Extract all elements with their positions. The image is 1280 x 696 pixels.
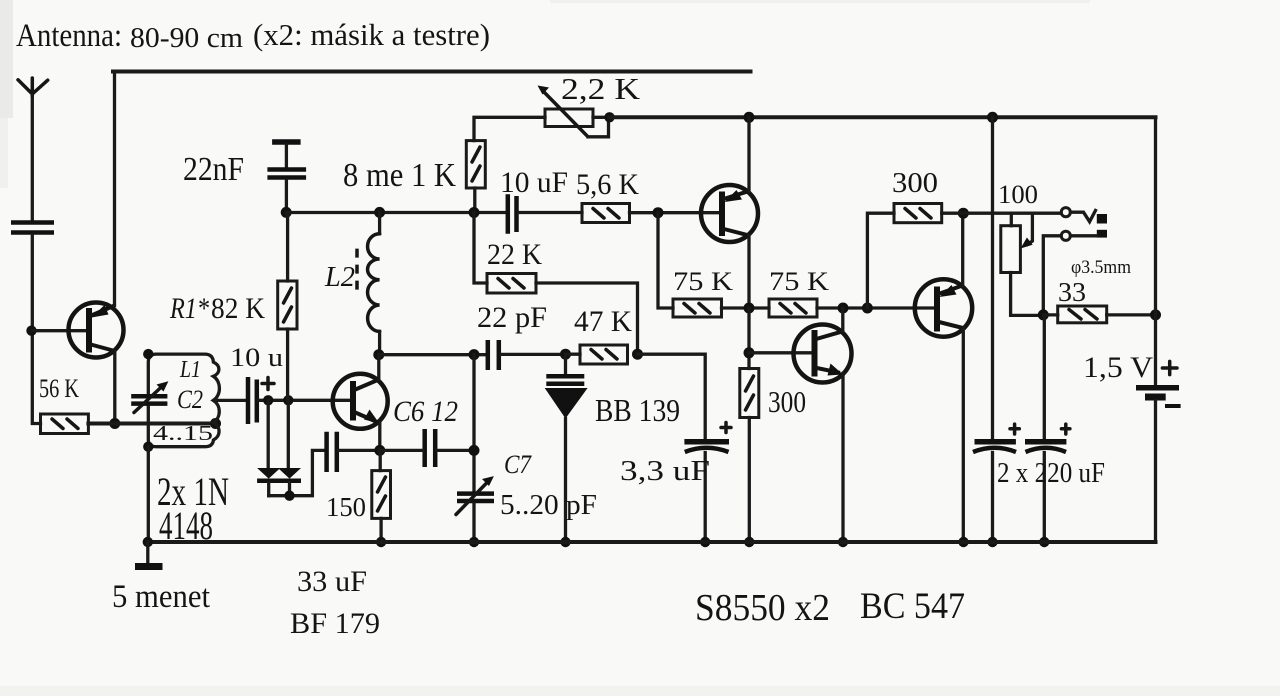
svg-text:33 uF: 33 uF [297, 565, 367, 598]
transistor Q3 BC547 [915, 279, 972, 336]
label 8 me 1 K [343, 157, 456, 194]
label C7 [504, 450, 532, 479]
node pot wiper junction [604, 112, 614, 122]
label 5 menet [112, 579, 210, 615]
transistor Q0 [69, 303, 124, 358]
svg-text:Antenna:: Antenna: [16, 18, 122, 54]
svg-text:(x2: másik a testre): (x2: másik a testre) [253, 17, 490, 52]
svg-text:10 u: 10 u [230, 343, 283, 372]
svg-text:5..20 pF: 5..20 pF [500, 490, 597, 521]
node tank tap [210, 418, 221, 429]
svg-text:47 K: 47 K [574, 305, 632, 338]
node Q4 collector [373, 349, 384, 360]
capacitor C2 variable (in tank) [131, 381, 168, 412]
node R1/diode2/base [283, 395, 293, 405]
svg-text:5,6 K: 5,6 K [576, 168, 639, 201]
node 47K right [632, 349, 643, 360]
node Q1 collector/75K [744, 303, 755, 314]
wire Q4 collector row y354 [379, 353, 486, 356]
capacitor 3,3 uF [684, 423, 731, 543]
svg-text:S8550 x2: S8550 x2 [695, 587, 830, 629]
wire antenna to 56K [32, 235, 40, 424]
svg-text:C6 12: C6 12 [393, 395, 458, 428]
wire Q2 base [749, 351, 812, 354]
wire pot 100 top stub [1010, 213, 1013, 226]
node Q3 emitter ground [958, 537, 968, 547]
label 150 [326, 492, 366, 522]
node rail/Q1 emitter [744, 112, 755, 123]
wire x474 column [472, 355, 475, 491]
svg-text:C7: C7 [504, 450, 532, 479]
wire tank tap (thick) [88, 422, 214, 426]
wire 75K#1 to 75K#2 [722, 306, 770, 309]
label C2 [177, 385, 203, 414]
node 300 branch [862, 303, 873, 314]
node 22nF/R1 junction [281, 207, 292, 218]
jack terminal sleeve [1061, 231, 1097, 240]
label 22 K [487, 238, 542, 271]
battery 1,5 V [1136, 388, 1181, 406]
jack spring contact [1070, 211, 1095, 222]
node 33 right rail [1150, 309, 1161, 320]
svg-text:C2: C2 [177, 385, 203, 414]
capacitor 22 pF [488, 340, 499, 370]
svg-text:22 pF: 22 pF [477, 301, 547, 334]
jack terminal tip [1061, 208, 1070, 217]
svg-text:75 K: 75 K [769, 267, 829, 296]
wire C6 to node x474 [437, 449, 474, 452]
wire 5,6K to Q1 base [630, 211, 721, 214]
node ground rail left [143, 537, 153, 547]
node 10u/diode1 [263, 395, 273, 405]
svg-text:33: 33 [1058, 277, 1086, 307]
resistor 5,6 K [582, 204, 630, 223]
wire ground rail [148, 540, 1156, 544]
wire node row y=212 left [286, 211, 506, 214]
varicap BB 139 [545, 354, 588, 542]
label R1* 82 K [169, 292, 265, 325]
node Q3 collector/300h [958, 208, 969, 219]
resistor 300 vertical [740, 369, 759, 543]
capacitor C7 variable [456, 476, 494, 542]
diode D2 1N4148 [278, 400, 301, 495]
wire Q4 emitter to C6 [380, 449, 423, 452]
svg-text:300: 300 [768, 384, 806, 419]
wire antenna lead down [31, 94, 34, 220]
wire Q4 emitter down [378, 423, 381, 450]
svg-text:φ3.5mm: φ3.5mm [1071, 257, 1131, 278]
potentiometer 100 [1001, 226, 1044, 316]
svg-text:L1: L1 [179, 357, 201, 383]
label 75 K second [769, 267, 829, 296]
label BF 179 [290, 607, 380, 640]
node 150 ground [376, 537, 386, 547]
inductor L1 tank outline [148, 354, 219, 447]
label 2x 1N 4148 [157, 469, 229, 548]
wire 75K#2 to Q3 base [817, 306, 935, 309]
node 22pF left [469, 349, 480, 360]
svg-text:75 K: 75 K [673, 267, 733, 296]
label 1,5 V [1083, 351, 1153, 384]
wire 220uF-1 top [991, 117, 994, 439]
wire Q2 collector up [841, 308, 844, 331]
wire 22K to 47K junction [536, 283, 638, 354]
wire tank tap to 10u cap [214, 399, 246, 402]
svg-text:10 uF: 10 uF [500, 166, 568, 199]
label 56 K [39, 374, 79, 403]
wire 10uF to 5,6K [519, 211, 583, 214]
label 75 K first [673, 267, 733, 296]
wire 300v top / Q2 base node [747, 308, 750, 369]
wire jack sleeve down [1043, 236, 1061, 315]
node Q2 emitter ground [838, 537, 848, 547]
wire x474 branch down [474, 213, 487, 284]
svg-text:BC 547: BC 547 [860, 586, 965, 627]
label 100 [998, 180, 1038, 209]
label 33 uF [297, 565, 367, 598]
wire 220uF-2 top [1043, 315, 1046, 439]
label BC 547 [860, 586, 965, 627]
wire pot left to 8me1K [474, 117, 545, 140]
capacitor 22nF [267, 142, 306, 212]
capacitor antenna series cap [11, 223, 54, 233]
svg-text:5 menet: 5 menet [112, 579, 210, 615]
label 2 x 220 uF [997, 458, 1105, 489]
svg-text:2 x 220 uF: 2 x 220 uF [997, 458, 1105, 489]
jack plug 3.5mm [1097, 214, 1107, 238]
label BB 139 [595, 392, 680, 428]
capacitor 33 uF [327, 432, 337, 472]
label 47 K [574, 305, 632, 338]
capacitor 220 uF first [973, 424, 1019, 542]
node 220uF-1 ground [987, 537, 997, 547]
wire 10u to base node [259, 399, 353, 402]
potentiometer 2,2 K [538, 86, 609, 137]
wire Q4 collector up [377, 355, 380, 380]
wire Q3 collector up [961, 213, 964, 285]
antenna ANT1 [18, 78, 48, 96]
wire right rail lower [1154, 401, 1157, 543]
label 10 u [230, 343, 283, 372]
svg-text:R1*: R1* [169, 292, 209, 325]
resistor 150 [372, 450, 391, 542]
label C6 12 [393, 395, 458, 428]
svg-text:82 K: 82 K [211, 292, 265, 325]
node BB139 ground [560, 537, 570, 547]
node BB139/47K [560, 349, 571, 360]
wire 22pF to BB139 node [501, 353, 566, 356]
resistor 75 K second [769, 299, 817, 317]
node 3,3uF ground [700, 537, 710, 547]
svg-text:22 K: 22 K [487, 238, 542, 271]
transistor Q2 S8550 [794, 325, 852, 383]
svg-text:BF 179: BF 179 [290, 607, 380, 640]
wire Q0 emitter to top rail [113, 72, 116, 306]
svg-text:22nF: 22nF [183, 151, 244, 188]
node pot/jack/33 junction [1038, 309, 1049, 320]
label S8550 x2 [695, 587, 830, 629]
node diode D2 bottom [284, 491, 294, 501]
label 3,3 uF [620, 455, 710, 487]
svg-text:1,5 V: 1,5 V [1083, 351, 1153, 384]
label 33 [1058, 277, 1086, 307]
label 2,2 K [561, 71, 641, 106]
wire 47K to 3,3uF [638, 354, 706, 439]
ground symbol [135, 542, 163, 567]
capacitor 10 uF coupling [508, 194, 517, 234]
transistor Q1 S8550 [701, 185, 758, 242]
wire 300h left leg [867, 213, 894, 308]
resistor 22 K [487, 274, 536, 294]
node antenna/base junction [26, 326, 36, 336]
svg-text:L2: L2 [324, 261, 355, 293]
wire right rail upper [1154, 117, 1157, 385]
label 5..20 pF [500, 490, 597, 521]
resistor 300 horizontal [894, 204, 942, 223]
svg-text:80-90 cm: 80-90 cm [130, 22, 243, 54]
label 4..15 [153, 421, 213, 445]
node Q2 base [744, 347, 755, 358]
wire 300h to jack tip [942, 212, 1061, 215]
wire supply rail y117 [610, 115, 1156, 119]
capacitor 220 uF second [1025, 424, 1070, 542]
node Q0 collector / tank tap wire [109, 418, 120, 429]
battery plus sign [1162, 361, 1177, 374]
inductor L2 [357, 212, 380, 354]
svg-text:100: 100 [998, 180, 1038, 209]
capacitor C6 [425, 429, 436, 467]
svg-text:8 me 1 K: 8 me 1 K [343, 157, 456, 194]
node rail/220uF-1 [987, 112, 998, 123]
label 5,6 K [576, 168, 639, 201]
wire Q1 collector down [747, 235, 750, 308]
node Q4 emitter [374, 445, 385, 456]
node L2 top [374, 207, 385, 218]
wire Q0 collector down [113, 351, 116, 424]
resistor R1 82 K [278, 212, 297, 400]
svg-text:4148: 4148 [159, 503, 213, 548]
node 300v ground [744, 537, 754, 547]
resistor 33 [1043, 306, 1155, 323]
svg-text:BB 139: BB 139 [595, 392, 680, 428]
resistor 47 K [566, 345, 628, 364]
svg-text:2,2 K: 2,2 K [561, 71, 641, 106]
svg-text:56 K: 56 K [39, 374, 79, 403]
wire base of Q0 [32, 329, 86, 332]
wire top rail [113, 70, 751, 74]
svg-text:150: 150 [326, 492, 366, 522]
label jack diameter [1071, 257, 1131, 278]
label 10 uF [500, 166, 568, 199]
wire diodes to 33uF [269, 450, 325, 495]
node C6/C7 junction [469, 445, 480, 456]
wire base branch to 75K#1 [658, 213, 673, 308]
svg-text:4..15: 4..15 [153, 421, 213, 445]
wire tank bottom to ground rail [147, 447, 150, 542]
diode D1 1N4148 [257, 400, 280, 495]
resistor 56 K [41, 414, 89, 434]
label 300 horizontal [892, 167, 938, 199]
resistor 8 me 1 K [466, 141, 485, 213]
wire Q3 emitter down [962, 328, 965, 542]
label L1 [179, 357, 201, 383]
capacitor 10 u electrolytic [248, 377, 274, 424]
node Q2 collector [838, 303, 849, 314]
node tank top-left [143, 349, 153, 359]
wire Q1 emitter up [747, 117, 750, 191]
wire pot 100 wiper [1021, 213, 1033, 248]
label 300 vertical [768, 384, 806, 419]
node Q1 base branch [653, 207, 664, 218]
label 22nF [183, 151, 244, 188]
node C7 ground [469, 537, 479, 547]
wire 33uF to Q4 emitter [339, 449, 380, 452]
label Antenna heading [16, 17, 490, 54]
svg-text:3,3 uF: 3,3 uF [620, 455, 710, 487]
svg-text:300: 300 [892, 167, 938, 199]
node tank bottom-left [143, 442, 153, 452]
node 220uF-2 ground [1039, 537, 1049, 547]
node x474 row y212 [469, 207, 480, 218]
transistor Q4 BF179 [333, 374, 388, 429]
wire Q2 emitter down [841, 374, 844, 543]
label L2 [324, 261, 355, 293]
label 22 pF [477, 301, 547, 334]
resistor 75 K first [673, 299, 722, 317]
